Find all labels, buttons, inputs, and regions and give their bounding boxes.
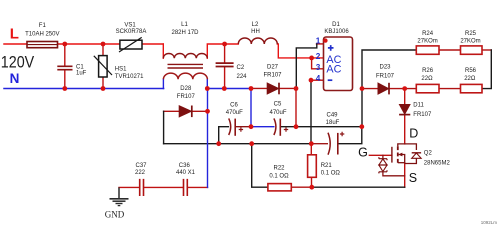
SECTION: dots bbox=[62, 38, 407, 189]
wire minus bus drop to R22 row bbox=[252, 144, 268, 188]
junction D27 cathode bbox=[294, 86, 299, 91]
svg-text:D11: D11 bbox=[413, 103, 424, 109]
svg-text:120V: 120V bbox=[1, 53, 35, 72]
junction pin4/R21/C49 on minus bus bbox=[309, 141, 314, 146]
svg-text:22Ω: 22Ω bbox=[421, 76, 433, 82]
svg-text:C2: C2 bbox=[237, 65, 245, 71]
wire D23 cathode bbox=[389, 88, 405, 90]
wire between R24 and R25 bbox=[439, 49, 461, 51]
varistor HS1 bbox=[99, 56, 108, 77]
svg-text:28N65M2: 28N65M2 bbox=[424, 161, 451, 167]
svg-text:G: G bbox=[358, 146, 368, 160]
svg-text:D27: D27 bbox=[267, 65, 279, 71]
diode D27 bbox=[267, 83, 279, 95]
resistor R56 bbox=[461, 84, 483, 92]
wire R21 bottom stem bbox=[311, 177, 313, 187]
svg-text:FR107: FR107 bbox=[413, 112, 432, 118]
pin label plus bbox=[328, 45, 334, 51]
wire D27 cathode to node bbox=[279, 87, 296, 89]
svg-text:C49: C49 bbox=[326, 113, 338, 119]
wire D23 anode bbox=[362, 88, 378, 90]
wire D28 anode bbox=[164, 110, 179, 112]
fuse F1 bbox=[27, 42, 58, 48]
wire blue drop rail to C36 row bbox=[207, 89, 209, 188]
resistor R22 bbox=[268, 184, 291, 191]
svg-text:R22: R22 bbox=[273, 165, 285, 171]
wire plus bus line y127 bbox=[296, 126, 362, 128]
SECTION: components bbox=[27, 37, 482, 206]
junction C2 bottom bbox=[222, 86, 227, 91]
junction D23 anode bbox=[360, 86, 365, 91]
svg-text:AC: AC bbox=[326, 63, 341, 75]
svg-text:D23: D23 bbox=[379, 65, 391, 71]
svg-text:222: 222 bbox=[135, 170, 146, 176]
junction bridge pin4 bbox=[309, 78, 314, 83]
svg-text:1092Lm: 1092Lm bbox=[481, 220, 498, 225]
svg-text:440 X1: 440 X1 bbox=[176, 170, 196, 176]
wire C36 to blue drop bbox=[188, 186, 208, 188]
junction bridge pin2 bbox=[309, 56, 314, 61]
svg-text:VS1: VS1 bbox=[124, 23, 136, 29]
svg-text:22Ω: 22Ω bbox=[464, 76, 476, 82]
svg-text:C37: C37 bbox=[135, 163, 147, 169]
wire minus bus line y144 bbox=[164, 143, 312, 145]
wire L2 output drop to bridge pin 2 bbox=[277, 44, 323, 58]
wire L1 input drop bbox=[162, 44, 164, 58]
diode D23 bbox=[378, 83, 389, 95]
wire HS1 top stem bbox=[102, 44, 104, 56]
thermistor VS1 bbox=[120, 40, 142, 49]
wire bridge pin4 drop (black) to minus bus bbox=[310, 80, 312, 144]
wire bottom rail to MOSFET source bbox=[312, 186, 405, 188]
svg-text:KBJ1006: KBJ1006 bbox=[324, 29, 349, 35]
zener Z2 bbox=[379, 165, 387, 171]
svg-text:GND: GND bbox=[105, 210, 125, 220]
junction pin1 marker inside D1 bbox=[323, 38, 327, 42]
svg-text:R24: R24 bbox=[422, 31, 434, 37]
junction L1 bottom right on rail bbox=[205, 86, 210, 91]
inductor L2 bbox=[238, 38, 277, 44]
svg-text:18uF: 18uF bbox=[326, 120, 340, 126]
wire ground row to C37 bbox=[119, 186, 139, 188]
junction R22 drop on minus bus bbox=[249, 141, 254, 146]
wire D11 cathode to drain bbox=[404, 115, 406, 144]
resistor R24 bbox=[416, 46, 439, 54]
wire VS1 to L1 bbox=[142, 43, 163, 45]
junction C1 top bbox=[62, 42, 67, 47]
wire C6 left feed from minus bus bbox=[219, 127, 229, 144]
zener pair gate protection: zener Z1 bbox=[379, 157, 387, 160]
junction plus bus at C5 bbox=[294, 124, 299, 129]
wire R21 top stem bbox=[310, 144, 312, 155]
svg-text:R56: R56 bbox=[465, 68, 477, 74]
svg-text:FR107: FR107 bbox=[376, 74, 395, 80]
wire R25 to right loop bbox=[482, 49, 491, 51]
resistor R25 bbox=[461, 46, 483, 54]
wire zener stack bottom to source bbox=[383, 172, 405, 176]
svg-text:2: 2 bbox=[316, 52, 321, 61]
wire C5 right to plus bus bbox=[280, 126, 296, 128]
wire bridge pin1 loop (black) to D27 cathode node bbox=[296, 44, 317, 89]
wire C2 stems bbox=[224, 44, 226, 89]
L1 bottom winding bbox=[163, 73, 207, 79]
svg-text:1: 1 bbox=[316, 37, 321, 46]
wire C37 to C36 bbox=[144, 186, 183, 188]
svg-text:470uF: 470uF bbox=[269, 110, 286, 116]
svg-text:224: 224 bbox=[237, 74, 248, 80]
svg-text:L1: L1 bbox=[181, 22, 188, 28]
resistor R21 bbox=[308, 155, 317, 178]
junction C1 bottom bbox=[62, 86, 67, 91]
wire D28 anode black L from minus line bbox=[163, 111, 165, 143]
svg-text:R26: R26 bbox=[422, 68, 434, 74]
wire bridge pin1 stub bbox=[317, 43, 324, 45]
capacitor C5 (electrolytic) bbox=[274, 118, 276, 135]
svg-text:L2: L2 bbox=[252, 22, 259, 28]
junction R21 bottom on source rail bbox=[309, 185, 314, 190]
wire R26 row segments bbox=[405, 88, 461, 90]
svg-text:T10AH 250V: T10AH 250V bbox=[25, 31, 59, 37]
Q2 drain link bbox=[398, 144, 405, 146]
svg-text:D28: D28 bbox=[180, 86, 192, 92]
wire source drop to bottom rail bbox=[404, 163, 406, 188]
wire jumper bridge pin2 to pin3 bbox=[312, 58, 324, 69]
capacitor C37 bbox=[140, 179, 144, 196]
wire node D27 down to plus bus bbox=[295, 88, 297, 126]
junction HS1 top bbox=[101, 42, 106, 47]
capacitor C49 (electrolytic) bbox=[328, 133, 330, 155]
svg-text:TVR10271: TVR10271 bbox=[115, 74, 144, 80]
wire L1 output rise and run to L2 bbox=[207, 44, 238, 58]
svg-text:R25: R25 bbox=[465, 31, 477, 37]
svg-text:D: D bbox=[409, 127, 418, 141]
junction D28 cathode on blue drop bbox=[205, 109, 210, 114]
svg-text:27KOm: 27KOm bbox=[417, 39, 437, 45]
wire neutral rail middle bbox=[207, 88, 251, 90]
capacitor C6 (electrolytic) bbox=[229, 118, 231, 135]
svg-text:HH: HH bbox=[251, 29, 260, 35]
wire D27 anode bbox=[251, 87, 267, 89]
svg-text:S: S bbox=[409, 171, 417, 185]
Q2 body arrow bbox=[398, 153, 403, 157]
wire minus bus to C49 left plate bbox=[311, 143, 327, 145]
wire D11 anode stem bbox=[404, 89, 406, 105]
svg-text:Q2: Q2 bbox=[424, 151, 433, 157]
svg-text:D1: D1 bbox=[332, 22, 340, 28]
wire D28 cathode to blue drop bbox=[192, 110, 208, 112]
wire L1 bottom winding left leg bbox=[162, 79, 164, 88]
diode D28 bbox=[179, 106, 192, 118]
svg-text:SCK0R78A: SCK0R78A bbox=[116, 29, 147, 35]
ground symbol bbox=[118, 187, 120, 198]
SECTION: wires bbox=[4, 44, 491, 188]
svg-text:HS1: HS1 bbox=[115, 67, 127, 73]
wire fuse output to VS1 bbox=[58, 43, 120, 45]
junction rail to C6/D27 bbox=[249, 86, 254, 91]
node N : neutral rail left bbox=[4, 88, 164, 90]
svg-text:N: N bbox=[10, 71, 20, 86]
node L : live input wire bbox=[4, 43, 27, 45]
svg-text:FR107: FR107 bbox=[263, 72, 282, 78]
L1 core lines bbox=[168, 64, 204, 68]
svg-text:0.1 OΩ: 0.1 OΩ bbox=[269, 173, 289, 179]
svg-text:0.1 OΩ: 0.1 OΩ bbox=[321, 171, 341, 177]
wire right loop vertical bbox=[482, 50, 491, 89]
wire plus bus up to R24 feed (black) bbox=[362, 50, 416, 127]
capacitor C36 bbox=[184, 179, 188, 196]
transistor Q2 gate bar bbox=[391, 147, 393, 163]
svg-text:470uF: 470uF bbox=[226, 110, 243, 116]
wire L1 bottom winding right leg bbox=[206, 79, 208, 88]
svg-text:FR107: FR107 bbox=[177, 94, 196, 100]
svg-text:C5: C5 bbox=[274, 102, 282, 108]
svg-text:3: 3 bbox=[316, 63, 321, 72]
wire blue drop rail node to C6 right bbox=[250, 89, 252, 127]
svg-text:4: 4 bbox=[316, 74, 321, 83]
Q2 channel dashes bbox=[397, 146, 399, 163]
svg-text:C36: C36 bbox=[179, 163, 191, 169]
pin label minus bbox=[328, 79, 333, 81]
svg-text:C6: C6 bbox=[230, 103, 238, 109]
svg-text:1uF: 1uF bbox=[76, 71, 87, 77]
Q2 source link bbox=[398, 162, 405, 164]
svg-text:F1: F1 bbox=[39, 23, 47, 29]
wire blue link C6 node to C5 left bbox=[251, 126, 274, 128]
resistor R26 bbox=[416, 84, 439, 92]
common-mode choke L1 top winding bbox=[163, 54, 207, 59]
wire R22 to R21 bottom node bbox=[291, 186, 312, 188]
wire C1 top stem bbox=[64, 44, 66, 66]
bridge rectifier U-box D1 bbox=[324, 37, 353, 91]
junction C6 left on minus bus bbox=[216, 141, 221, 146]
wire HS1 bottom stem bbox=[102, 77, 104, 89]
wire C1 bottom stem bbox=[64, 70, 66, 88]
wire gate lead from G bbox=[369, 154, 392, 156]
wire bridge pin4 stub bbox=[311, 79, 324, 81]
svg-text:27KOm: 27KOm bbox=[460, 39, 480, 45]
wire C6 right to node bbox=[235, 126, 251, 128]
capacitor C2 bbox=[216, 63, 234, 66]
svg-text:282H 17D: 282H 17D bbox=[171, 30, 199, 36]
Q2 body diode bbox=[405, 144, 417, 150]
junction plus bus right end bbox=[359, 124, 364, 129]
wire zener stack top tap bbox=[382, 155, 384, 158]
junction C2 top bbox=[222, 42, 227, 47]
capacitor C1 bbox=[57, 66, 72, 69]
junction HS1 bottom bbox=[101, 86, 106, 91]
wire C49 right plate up to plus bus bbox=[338, 127, 362, 144]
svg-text:R21: R21 bbox=[321, 163, 333, 169]
junction C6 right node bbox=[249, 124, 254, 129]
junction D23 cathode / D11 / R26 bbox=[402, 86, 407, 91]
svg-text:L: L bbox=[10, 26, 19, 43]
diode D11 bbox=[399, 104, 410, 114]
